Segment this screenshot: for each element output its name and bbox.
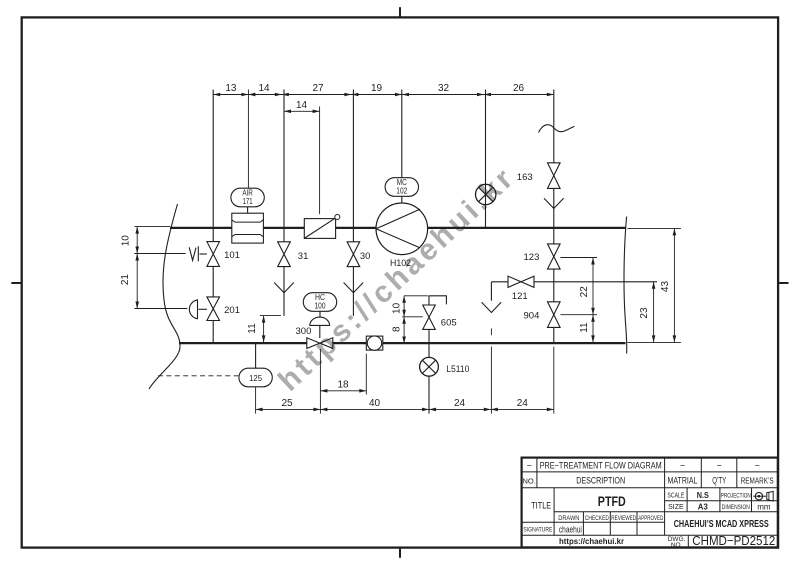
instrument bubble AIR 171 [231, 188, 264, 207]
valve 300 stem [319, 325, 321, 338]
svg-text:CHAEHUI’S MCAD XPRESS: CHAEHUI’S MCAD XPRESS [674, 519, 769, 530]
svg-text:27: 27 [312, 83, 324, 94]
svg-text:22: 22 [579, 286, 590, 298]
left pipe break curve [149, 204, 180, 389]
dim 22/11 right of valves 123/904 [592, 258, 594, 343]
svg-text:21: 21 [120, 274, 131, 286]
pump H102 circle [376, 203, 428, 255]
svg-text:N.S: N.S [697, 491, 710, 500]
air filter vessel AIR171 [232, 213, 264, 243]
svg-text:L5110: L5110 [446, 364, 469, 375]
valve 605 [423, 305, 436, 317]
right center tick [778, 282, 788, 284]
svg-text:300: 300 [296, 326, 312, 337]
right pipe break curve [624, 217, 627, 354]
svg-text:DIMENSION: DIMENSION [722, 504, 750, 511]
valve 121 horizontal branch line [491, 281, 508, 283]
dashed signal line to bubble 125 [158, 375, 238, 377]
svg-text:605: 605 [441, 318, 457, 329]
svg-text:CHMD−PD2512: CHMD−PD2512 [692, 533, 775, 548]
svg-text:SIZE: SIZE [668, 504, 684, 511]
svg-text:11: 11 [579, 322, 590, 333]
dim 10/8 at valve 605 [403, 296, 405, 344]
svg-text:PTFD: PTFD [598, 493, 626, 509]
lamp with cross x=485.5 [476, 184, 496, 204]
valve 904 [548, 302, 561, 315]
bottom dimension line 25/40/24/24 [256, 408, 554, 410]
svg-text:14: 14 [258, 83, 270, 94]
svg-text:201: 201 [224, 305, 240, 316]
branch line at x=284 (valve 31 drain) [283, 90, 285, 242]
extension below lower line at x=491.4 [490, 347, 492, 414]
svg-text:MATRIAL: MATRIAL [668, 476, 698, 486]
svg-text:25: 25 [281, 398, 293, 409]
svg-text:163: 163 [517, 172, 533, 183]
drain chevron below valve 121 [482, 302, 502, 312]
svg-text:NO.: NO. [671, 542, 683, 549]
svg-text:31: 31 [298, 251, 309, 262]
svg-text:18: 18 [337, 379, 349, 390]
projection symbol [755, 493, 762, 500]
branch line at x=353.4 (valve 30 drain) [352, 90, 354, 242]
dim 18 line [320, 390, 366, 392]
top center tick [399, 7, 401, 17]
svg-text:30: 30 [360, 251, 371, 262]
instrument bubble HC 100 [303, 293, 336, 312]
svg-text:40: 40 [369, 398, 381, 409]
instrument line at x=402 (MC102) [401, 90, 403, 179]
top dim extension x=248.4 [247, 90, 249, 189]
svg-text:24: 24 [517, 398, 529, 409]
svg-text:125: 125 [249, 373, 262, 383]
svg-text:PROJECTION: PROJECTION [721, 493, 751, 500]
drain chevron below valve 163 [544, 198, 564, 208]
svg-text:DESCRIPTION: DESCRIPTION [576, 476, 625, 486]
dim 11 at drain 31 [263, 316, 265, 343]
sub dimension 14 line [284, 110, 320, 112]
svg-text:CHECKED: CHECKED [585, 515, 609, 522]
bubble 125 stem [255, 343, 257, 368]
vent symbol left of valve 101 [189, 247, 196, 260]
svg-text:−: − [755, 461, 760, 471]
svg-text:NO.: NO. [523, 476, 536, 485]
ext from valve 904 waist [560, 314, 597, 316]
svg-text:APPROVED: APPROVED [638, 515, 663, 522]
valve 121 drain elbow down [490, 282, 492, 301]
title block outer box [522, 458, 778, 548]
diaphragm symbol left of valve 201 [189, 300, 197, 319]
svg-text:19: 19 [371, 83, 383, 94]
dim 23 [653, 282, 655, 343]
inline square instrument with circle [366, 336, 383, 350]
lamp L5110 [420, 357, 439, 376]
ext from valve 123 waist [560, 257, 597, 259]
branch line at x=485.5 (lamp) [485, 90, 487, 228]
svg-text:171: 171 [243, 197, 253, 206]
svg-text:−: − [717, 461, 722, 471]
valve 101 [207, 242, 220, 254]
svg-text:101: 101 [224, 250, 240, 261]
svg-text:26: 26 [513, 83, 525, 94]
svg-text:−: − [527, 461, 532, 471]
svg-text:−: − [680, 461, 685, 471]
svg-text:10: 10 [391, 302, 402, 314]
extension below lower line at x=320.4 [319, 349, 321, 414]
branch line at x=553.8 (valves 163/123/904) [553, 90, 555, 163]
left dim extension y=308.5 [134, 308, 187, 310]
svg-text:32: 32 [438, 83, 450, 94]
top dimension line [213, 94, 554, 96]
svg-text:AIR: AIR [242, 188, 253, 197]
control valve 300 with actuator [307, 338, 320, 349]
svg-text:MC: MC [397, 178, 407, 187]
title block horizontal lines [522, 471, 778, 473]
upper main pipe line [170, 227, 232, 229]
extension below square instrument x=366.3 [365, 354, 367, 395]
ext line y=228.4 right [628, 227, 681, 229]
valve 605 branch at x=429 [428, 296, 430, 305]
svg-text:24: 24 [454, 398, 466, 409]
svg-text:A3: A3 [698, 502, 709, 511]
valve 121 horizontal [508, 276, 521, 287]
svg-text:102: 102 [396, 187, 407, 196]
svg-text:13: 13 [225, 83, 237, 94]
svg-text:121: 121 [512, 291, 528, 302]
svg-text:SIGNATURE: SIGNATURE [523, 527, 553, 534]
upper main line thin left extension [134, 226, 170, 228]
drain chevron below valve 30 [344, 283, 364, 293]
svg-text:PRE−TREATMENT FLOW DIAGRAM: PRE−TREATMENT FLOW DIAGRAM [540, 461, 662, 471]
valve 201 [207, 297, 220, 309]
branch line at x=213 (valves 101/201) [212, 90, 214, 242]
left dim extension y=253.5 [134, 253, 185, 255]
svg-text:TITLE: TITLE [531, 501, 551, 512]
drain stub segment below chevron 121 [490, 328, 492, 335]
dim 43 [673, 228, 675, 342]
left center tick [11, 282, 21, 284]
svg-text:8: 8 [391, 326, 402, 332]
L5110 lamp stem [428, 344, 430, 358]
bottom center tick [399, 548, 401, 558]
instrument bubble MC 102 [385, 178, 418, 197]
left dimension line 10/21 [136, 227, 138, 309]
extension below lower line at x=553.8 [553, 347, 555, 414]
svg-text:chaehui: chaehui [559, 524, 582, 534]
svg-text:123: 123 [524, 252, 540, 263]
valve 31 [278, 242, 291, 254]
valve 163 [548, 163, 561, 176]
svg-text:100: 100 [315, 302, 326, 311]
drain chevron below valve 31 [274, 283, 294, 293]
svg-text:https://chaehui.kr: https://chaehui.kr [559, 537, 624, 546]
svg-text:904: 904 [524, 311, 540, 322]
svg-text:23: 23 [639, 307, 650, 319]
instrument bubble 125 [239, 368, 272, 387]
svg-text:HC: HC [315, 293, 325, 302]
title block vertical lines [536, 458, 538, 488]
ext line y=342.4 right [628, 341, 681, 343]
svg-text:10: 10 [121, 235, 132, 247]
valve 123 [548, 244, 561, 257]
pipe break squiggle above valve 163 [539, 125, 575, 133]
svg-text:14: 14 [296, 100, 308, 111]
svg-text:REVIEWED: REVIEWED [611, 515, 636, 522]
svg-text:REMARK’S: REMARK’S [741, 476, 774, 485]
valve 30 [347, 242, 360, 254]
svg-text:11: 11 [247, 323, 258, 334]
AIR bubble stem [247, 207, 249, 213]
lower main pipe line [179, 342, 307, 344]
sub dim extension x=319.6 [319, 107, 321, 215]
svg-text:43: 43 [660, 281, 671, 293]
svg-text:Q’TY: Q’TY [712, 476, 726, 486]
valve 605 gooseneck vent elbow [429, 296, 446, 305]
actuator dome HC [310, 317, 330, 325]
svg-text:mm: mm [757, 502, 771, 511]
svg-text:DRAWN: DRAWN [558, 515, 579, 522]
HC bubble stem [319, 311, 321, 317]
svg-text:SCALE: SCALE [667, 493, 684, 500]
svg-text:H102: H102 [390, 258, 411, 269]
inline filter with diagonal [304, 219, 335, 239]
